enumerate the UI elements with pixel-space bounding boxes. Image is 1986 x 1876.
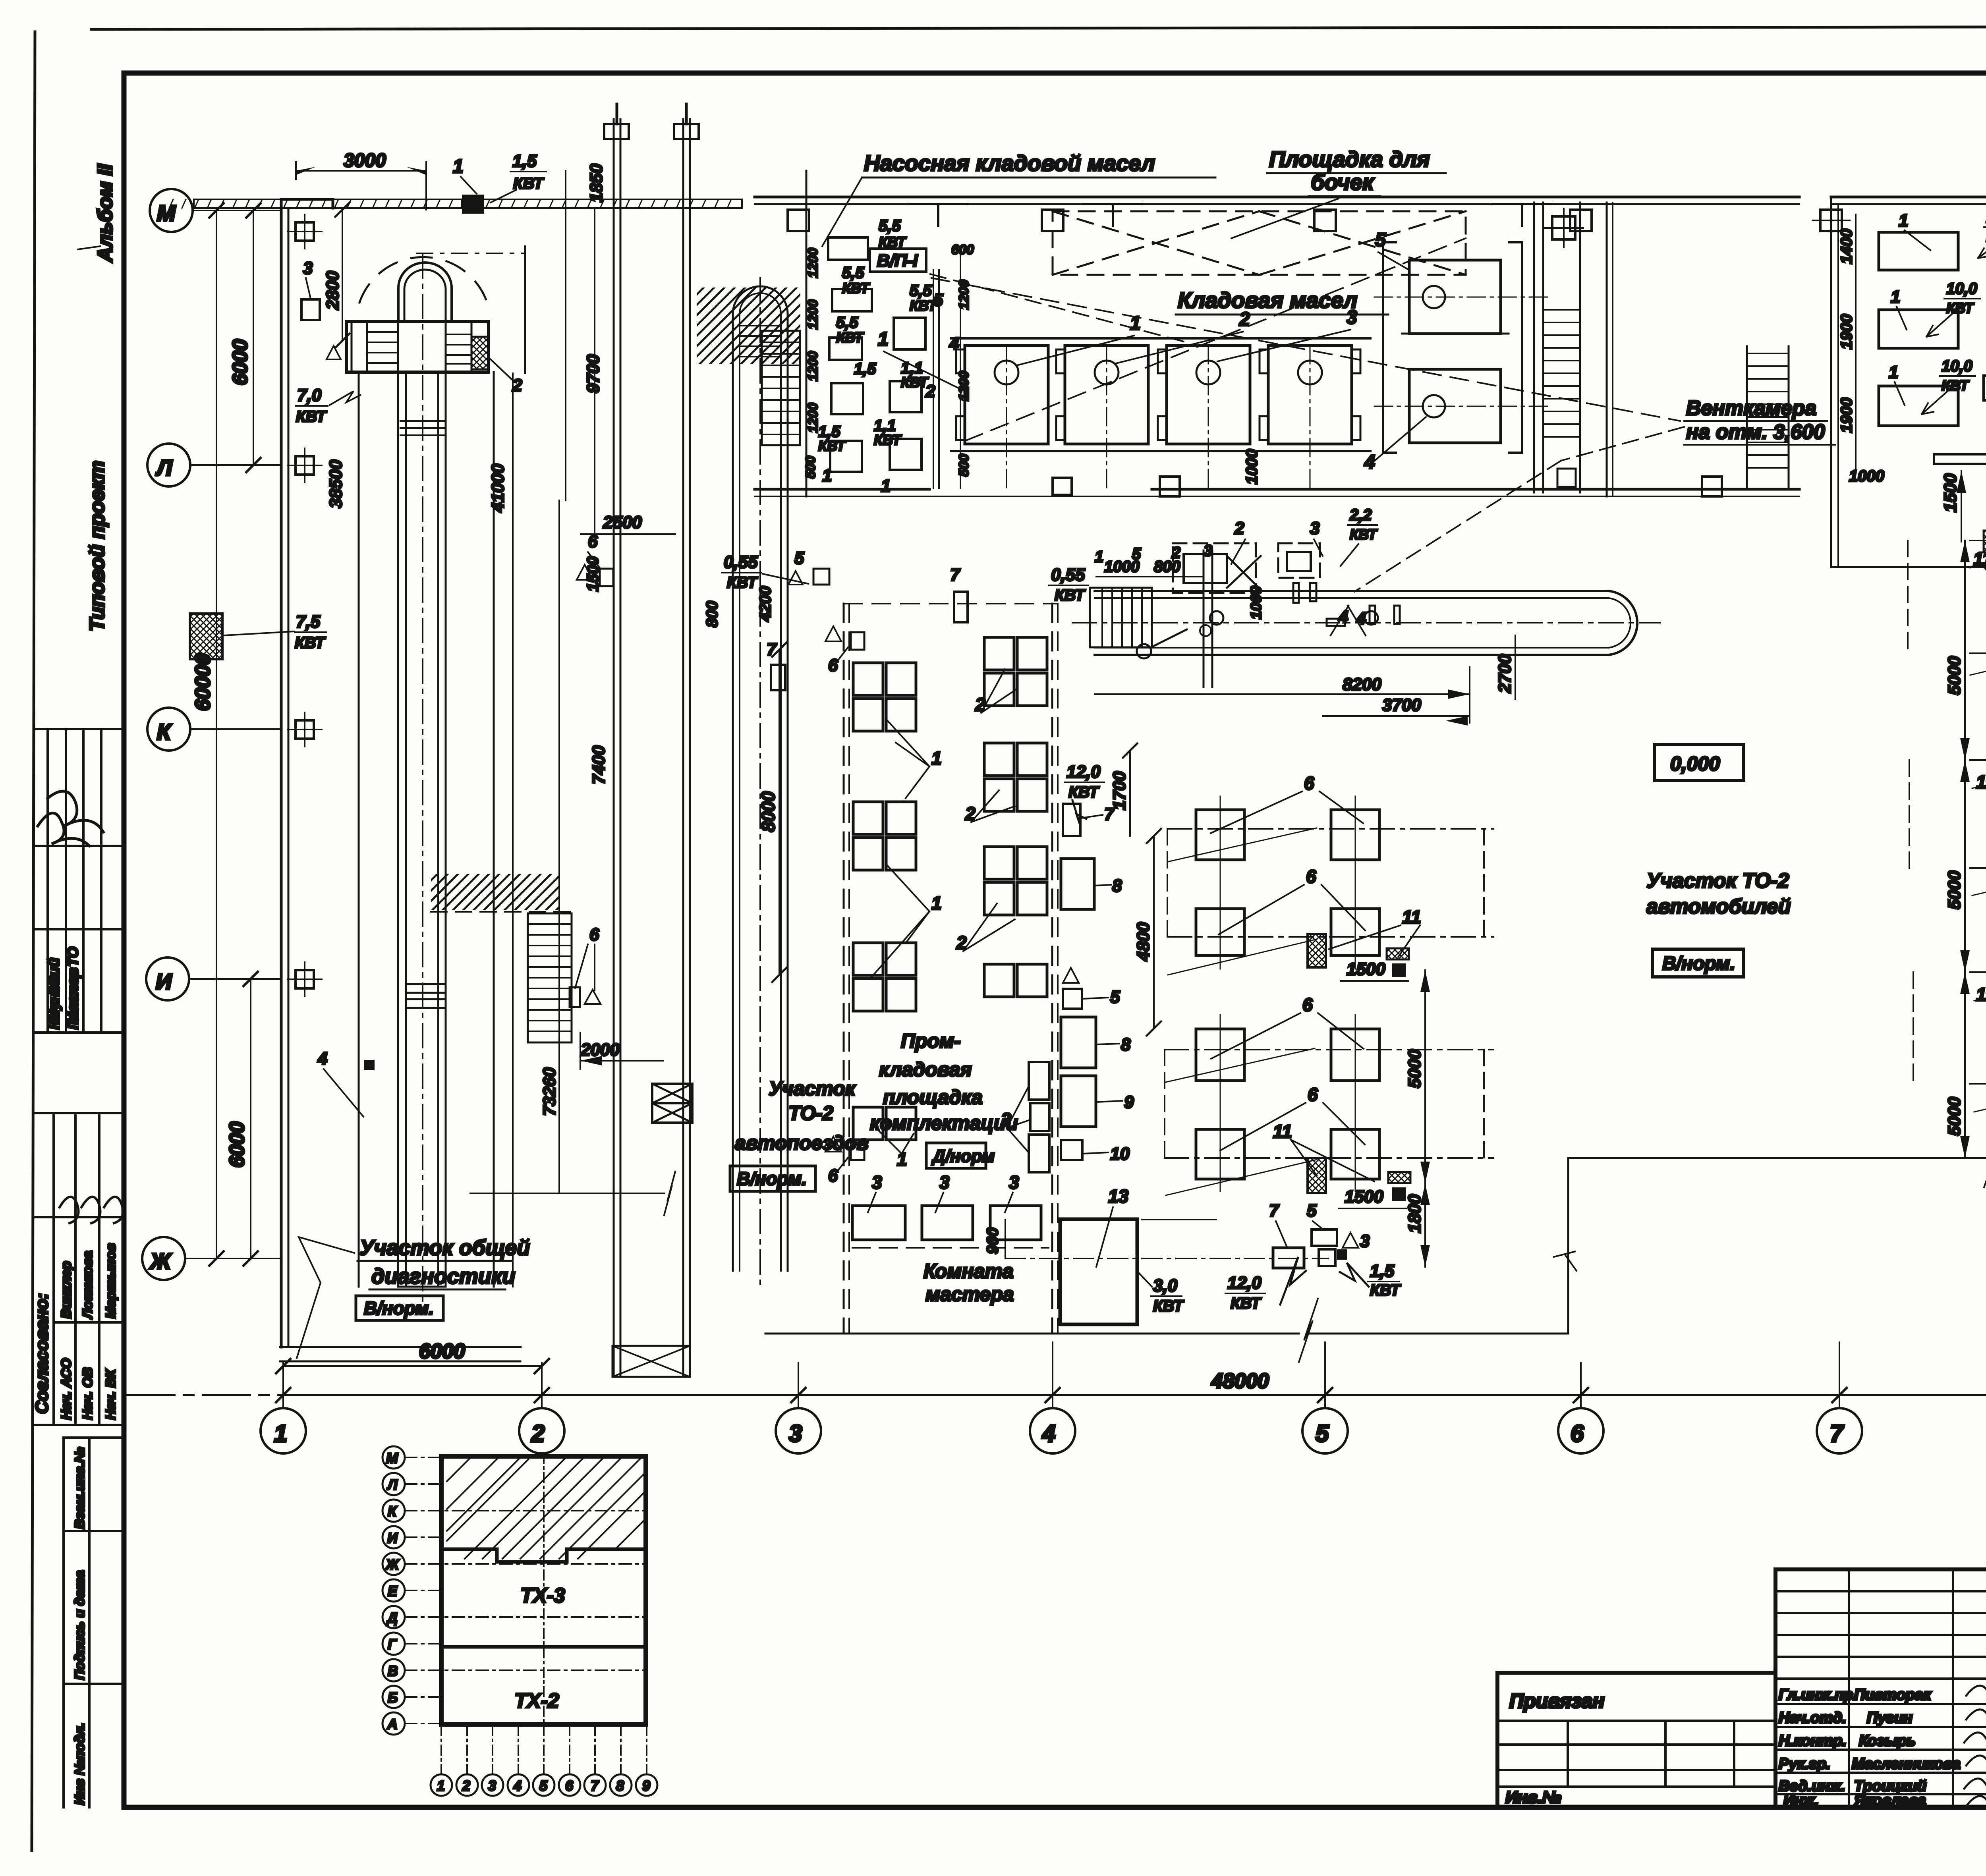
column squares on wall <box>296 222 314 241</box>
Д/норм box <box>926 1143 986 1168</box>
svg-text:Нач.отд.: Нач.отд. <box>1779 1710 1846 1726</box>
dashed group outlines <box>1908 540 1913 1084</box>
svg-text:К: К <box>388 1503 398 1519</box>
svg-text:автомобилей: автомобилей <box>1646 895 1791 918</box>
svg-text:ТХ-3: ТХ-3 <box>520 1584 565 1607</box>
svg-text:Типовой проект: Типовой проект <box>86 461 109 631</box>
svg-text:3: 3 <box>1360 1231 1370 1251</box>
svg-text:автопоездов: автопоездов <box>735 1132 869 1154</box>
svg-text:Пивторак: Пивторак <box>1854 1687 1932 1703</box>
oil storage tanks <box>878 288 1388 492</box>
cross hatch small rects <box>1308 934 1326 967</box>
svg-text:5: 5 <box>1316 1420 1329 1447</box>
41000 dim line <box>565 171 566 500</box>
svg-text:8: 8 <box>1112 876 1122 896</box>
svg-text:5,5: 5,5 <box>910 282 932 299</box>
svg-text:13: 13 <box>1108 1186 1129 1206</box>
svg-text:комплектации: комплектации <box>870 1112 1018 1134</box>
svg-text:Е: Е <box>388 1583 398 1599</box>
svg-text:Д/норм: Д/норм <box>931 1146 995 1166</box>
svg-text:КВТ: КВТ <box>842 280 870 296</box>
svg-text:2800: 2800 <box>323 271 342 310</box>
svg-text:Нач. АСО: Нач. АСО <box>59 1358 74 1420</box>
svg-text:10,0: 10,0 <box>1942 357 1972 375</box>
Согласовано block <box>32 1113 124 1425</box>
svg-text:1: 1 <box>878 329 889 350</box>
vertical dim 6000 И-Ж <box>250 979 251 1258</box>
svg-text:900: 900 <box>984 1228 1001 1254</box>
svg-text:М: М <box>157 201 176 226</box>
svg-text:5: 5 <box>1110 987 1120 1007</box>
small fittings on conveyor <box>1293 583 1299 603</box>
svg-text:3: 3 <box>939 1172 950 1193</box>
svg-text:И: И <box>387 1530 398 1546</box>
svg-text:3: 3 <box>872 1172 882 1193</box>
svg-text:КВТ: КВТ <box>296 408 327 425</box>
lift beam across pit <box>346 322 489 372</box>
svg-text:5: 5 <box>794 548 804 568</box>
wall left building double line <box>280 199 283 1347</box>
long diagonal leaders across <box>1166 828 1317 1195</box>
svg-text:2: 2 <box>462 1778 470 1794</box>
svg-text:В/норм.: В/норм. <box>1662 953 1735 974</box>
svg-text:10,0: 10,0 <box>1946 280 1977 297</box>
dim 9200 / 3700 / 2700 <box>1095 693 1470 695</box>
svg-text:Подпись и дата: Подпись и дата <box>72 1570 87 1680</box>
axis М <box>150 189 193 232</box>
svg-text:ТО-2: ТО-2 <box>788 1102 833 1124</box>
svg-text:600: 600 <box>951 242 974 257</box>
axis extension stubs <box>1839 1345 1840 1408</box>
svg-text:0,55: 0,55 <box>724 552 758 572</box>
lower sidebar cells <box>64 1438 124 1807</box>
svg-text:Согласовано:: Согласовано: <box>32 1293 52 1414</box>
svg-text:3: 3 <box>1310 519 1319 538</box>
svg-text:1: 1 <box>1889 363 1898 382</box>
svg-text:КВТ: КВТ <box>1068 784 1100 801</box>
svg-text:1000: 1000 <box>1248 586 1265 620</box>
compressor machines <box>1879 232 1958 270</box>
svg-text:КВТ: КВТ <box>874 432 902 448</box>
axis 7 <box>1817 1408 1862 1453</box>
svg-text:0,55: 0,55 <box>1051 565 1085 585</box>
svg-text:5,5: 5,5 <box>842 264 864 282</box>
svg-text:КВТ: КВТ <box>1350 526 1378 542</box>
svg-text:Участок: Участок <box>769 1077 856 1100</box>
second staircase right <box>1747 346 1789 489</box>
svg-text:6000: 6000 <box>419 1340 465 1363</box>
svg-text:7400: 7400 <box>589 745 609 784</box>
axis 5 <box>1302 1408 1348 1453</box>
svg-text:6: 6 <box>589 925 599 944</box>
ladder bars <box>400 421 445 435</box>
svg-text:4: 4 <box>949 334 959 353</box>
left wall of compressor room <box>1830 197 1832 567</box>
svg-text:Нач. ЗО: Нач. ЗО <box>46 975 62 1029</box>
tank 1 <box>956 345 1048 492</box>
svg-text:73260: 73260 <box>540 1067 559 1116</box>
svg-text:М: М <box>386 1450 398 1466</box>
svg-text:КВТ: КВТ <box>1055 587 1086 604</box>
svg-text:В/норм.: В/норм. <box>737 1168 807 1189</box>
bottom bench of battery room <box>1934 454 1986 464</box>
svg-text:7: 7 <box>950 565 961 585</box>
dim 6000 axes 1-2 <box>283 1365 542 1367</box>
svg-text:5000: 5000 <box>1945 1097 1964 1136</box>
svg-text:1200: 1200 <box>806 403 821 433</box>
pit 2 <box>733 278 788 1291</box>
svg-text:1,5: 1,5 <box>512 151 537 171</box>
svg-text:В/П-I: В/П-I <box>877 251 918 270</box>
svg-text:5: 5 <box>1132 545 1141 563</box>
pit walls below <box>358 372 360 1287</box>
column mid <box>1314 210 1336 231</box>
svg-text:1200: 1200 <box>806 351 821 381</box>
bottom three rects 3 <box>852 1206 905 1240</box>
long dashed leader lines across band <box>931 278 1680 421</box>
dim 8000 rotated <box>779 650 780 975</box>
svg-text:1,5: 1,5 <box>1370 1261 1395 1281</box>
axis 3 <box>776 1408 821 1453</box>
svg-text:Пугин: Пугин <box>1867 1710 1913 1726</box>
svg-text:на отм. 3,600: на отм. 3,600 <box>1686 421 1825 444</box>
vertical dims 1700 / 4800 <box>1129 751 1131 836</box>
svg-text:41000: 41000 <box>488 463 508 513</box>
staircase next to vent <box>1534 203 1583 492</box>
svg-text:11: 11 <box>1976 772 1986 792</box>
vertical dim 5000 / 1800 <box>1424 970 1426 1267</box>
vertical dim 5000 chain <box>1964 540 1966 1158</box>
svg-text:12,0: 12,0 <box>1227 1273 1262 1293</box>
svg-text:1: 1 <box>1095 548 1103 566</box>
svg-text:4: 4 <box>513 1778 522 1794</box>
svg-text:КВТ: КВТ <box>1942 377 1970 394</box>
right part boundary at y=2916 <box>1568 1157 1986 1159</box>
svg-text:Инв №подл.: Инв №подл. <box>72 1723 87 1805</box>
left stairs of conveyor <box>1090 588 1152 647</box>
unit 1 (1,5 kW) on fence <box>462 195 484 214</box>
building bottom walls <box>280 1346 520 1348</box>
axis И <box>146 957 189 1000</box>
svg-text:7: 7 <box>591 1778 599 1794</box>
svg-text:КВТ: КВТ <box>836 329 864 345</box>
svg-text:7,5: 7,5 <box>296 612 321 631</box>
tank 2 <box>1056 345 1148 492</box>
dim chain along wall <box>1855 214 1857 469</box>
svg-text:6: 6 <box>1302 994 1313 1015</box>
svg-text:4: 4 <box>1042 1420 1055 1447</box>
svg-text:1: 1 <box>274 1420 287 1447</box>
svg-text:1500: 1500 <box>1347 959 1385 979</box>
svg-text:2: 2 <box>925 382 935 401</box>
svg-text:1: 1 <box>437 1778 445 1794</box>
svg-text:3: 3 <box>789 1420 802 1447</box>
thin cross center lines through squares <box>1220 796 1355 1191</box>
svg-text:6: 6 <box>1571 1420 1584 1447</box>
dashed barrel platform with X <box>1053 211 1466 275</box>
svg-text:4: 4 <box>1338 607 1348 627</box>
extra walls <box>950 203 1613 622</box>
tank 3 <box>1158 345 1250 492</box>
svg-text:1500: 1500 <box>584 556 602 592</box>
svg-text:Участок общей: Участок общей <box>359 1236 530 1260</box>
svg-text:7: 7 <box>767 640 777 659</box>
svg-text:3: 3 <box>488 1778 496 1794</box>
svg-text:38500: 38500 <box>326 459 346 508</box>
svg-text:КВТ: КВТ <box>1231 1295 1262 1312</box>
7,5 kW crosshatch unit <box>190 614 222 659</box>
svg-text:Насосная кладовой масел: Насосная кладовой масел <box>864 151 1155 176</box>
svg-text:В: В <box>388 1663 398 1679</box>
svg-text:7,0: 7,0 <box>297 386 322 405</box>
axis 4 <box>1030 1408 1075 1453</box>
signatures column squiggles <box>1964 1686 1986 1809</box>
Привязан box <box>1497 1673 1775 1807</box>
axis К <box>147 708 190 751</box>
svg-text:500: 500 <box>956 454 972 477</box>
top horizontal dash to dim line <box>417 253 525 254</box>
svg-text:И: И <box>156 969 172 994</box>
svg-text:3000: 3000 <box>344 150 386 171</box>
svg-text:3: 3 <box>1009 1172 1019 1193</box>
svg-text:9700: 9700 <box>583 354 603 393</box>
top hatched band (fence) <box>169 199 742 208</box>
svg-text:Инж.: Инж. <box>1783 1792 1819 1809</box>
svg-text:3: 3 <box>303 259 313 278</box>
svg-text:Привязан: Привязан <box>1509 1690 1605 1712</box>
dim 3000 top <box>296 170 426 172</box>
hatched ramp band mid <box>431 874 560 910</box>
svg-text:5: 5 <box>1307 1201 1317 1220</box>
vertical dim 60000 М-Ж <box>216 210 217 1258</box>
bottom small units near axis 5 <box>1005 1258 1328 1259</box>
axis 6 <box>1558 1408 1603 1453</box>
svg-text:3: 3 <box>1204 542 1212 560</box>
svg-text:Мартынов: Мартынов <box>103 1243 118 1318</box>
svg-text:1: 1 <box>931 893 942 913</box>
svg-text:7: 7 <box>1830 1420 1844 1447</box>
ladder mid <box>528 913 601 1042</box>
squares 2 cols x 4 rows <box>1196 810 1379 1179</box>
outer page border top <box>91 26 1986 29</box>
svg-text:5000: 5000 <box>1945 870 1964 909</box>
solid arch double <box>398 262 452 322</box>
tank 4 <box>1260 345 1360 492</box>
svg-text:1000: 1000 <box>1849 467 1884 485</box>
svg-text:12,0: 12,0 <box>1066 762 1101 782</box>
svg-text:2: 2 <box>512 376 522 395</box>
svg-text:9: 9 <box>642 1778 650 1794</box>
svg-text:6: 6 <box>1304 773 1314 793</box>
svg-text:КВТ: КВТ <box>1153 1297 1184 1315</box>
svg-text:1700: 1700 <box>1110 771 1129 810</box>
svg-text:1000: 1000 <box>1243 449 1261 484</box>
dim 1500 below compressor <box>1831 566 1986 568</box>
stamp table 1 (наименования) <box>35 729 124 1113</box>
svg-text:Л: Л <box>155 455 173 480</box>
svg-text:Яковлева: Яковлева <box>1854 1792 1926 1809</box>
svg-text:48000: 48000 <box>1211 1370 1269 1393</box>
number circles row <box>431 1774 657 1796</box>
svg-text:Л: Л <box>386 1476 398 1493</box>
svg-text:10: 10 <box>1110 1144 1130 1164</box>
svg-text:Участок ТО-2: Участок ТО-2 <box>1646 869 1789 892</box>
svg-text:Инв.№: Инв.№ <box>1505 1788 1561 1807</box>
svg-text:8: 8 <box>616 1778 624 1794</box>
vertical dim 6000 М-Л <box>253 210 254 465</box>
svg-text:800: 800 <box>703 601 721 627</box>
svg-text:1900: 1900 <box>1838 314 1855 349</box>
hatched strip top (ramp) <box>697 288 800 364</box>
svg-text:Масленникова: Масленникова <box>1852 1756 1961 1772</box>
svg-text:8: 8 <box>1121 1035 1131 1054</box>
svg-text:11: 11 <box>1402 907 1421 927</box>
svg-text:0,000: 0,000 <box>1670 753 1720 775</box>
axis Ж <box>142 1237 185 1280</box>
svg-text:1500: 1500 <box>1345 1187 1383 1206</box>
svg-text:Площадка для: Площадка для <box>1269 147 1430 172</box>
top wall with columns <box>755 196 1799 199</box>
svg-text:9: 9 <box>1124 1092 1134 1112</box>
svg-text:1200: 1200 <box>806 248 821 278</box>
svg-text:Д: Д <box>386 1610 398 1626</box>
svg-text:8000: 8000 <box>758 791 779 832</box>
svg-text:5000: 5000 <box>1945 656 1964 695</box>
svg-text:КВТ: КВТ <box>727 574 758 591</box>
crosshatch + flags <box>1984 531 1986 552</box>
svg-text:2: 2 <box>1171 544 1180 562</box>
dash-dot axis rows <box>1168 828 1493 830</box>
svg-text:1900: 1900 <box>1838 398 1855 433</box>
rack group A1 (2x2) <box>853 663 916 1140</box>
svg-text:Козырь: Козырь <box>1859 1733 1916 1749</box>
svg-text:3700: 3700 <box>1382 695 1421 715</box>
hatched upper part <box>441 1456 646 1562</box>
svg-text:Нач. ВК: Нач. ВК <box>103 1369 118 1420</box>
svg-text:диагностики: диагностики <box>371 1264 515 1288</box>
svg-text:Г: Г <box>388 1636 397 1652</box>
svg-text:КВТ: КВТ <box>513 175 545 192</box>
svg-text:кладовая: кладовая <box>879 1058 972 1081</box>
svg-text:1850: 1850 <box>587 164 606 203</box>
dashed boundary <box>843 604 845 1334</box>
svg-text:4: 4 <box>317 1049 327 1068</box>
long diagonal leaders <box>1970 530 1986 1112</box>
platform lift above conveyor <box>1173 543 1256 593</box>
svg-text:КВТ: КВТ <box>1946 300 1974 316</box>
svg-text:11: 11 <box>1273 1121 1292 1142</box>
bottom wall of band <box>755 488 929 491</box>
T stub columns hanging <box>910 204 967 226</box>
svg-text:Альбом II: Альбом II <box>94 164 117 263</box>
misc labels near top of rack area <box>825 626 841 641</box>
svg-text:2,2: 2,2 <box>1349 506 1372 524</box>
svg-text:5: 5 <box>1375 230 1386 251</box>
axis 2 <box>519 1408 564 1453</box>
svg-text:1: 1 <box>1891 287 1900 307</box>
svg-text:1: 1 <box>1899 211 1908 230</box>
svg-text:4200: 4200 <box>757 586 774 622</box>
wall x=2030 <box>806 171 808 496</box>
svg-text:Рук.гр.: Рук.гр. <box>1779 1756 1830 1772</box>
svg-text:1: 1 <box>453 156 464 177</box>
column at top of wall <box>1820 210 1842 231</box>
svg-text:1: 1 <box>881 476 891 496</box>
svg-text:Кладовая масел: Кладовая масел <box>1178 288 1357 313</box>
svg-text:Нач. ОВ: Нач. ОВ <box>80 1367 95 1420</box>
svg-text:Пром-: Пром- <box>901 1030 961 1052</box>
svg-text:Гл.инж.пр.: Гл.инж.пр. <box>1779 1687 1857 1703</box>
svg-text:5,5: 5,5 <box>836 314 858 331</box>
dashed outer arc <box>359 257 487 303</box>
svg-text:2: 2 <box>1234 519 1244 538</box>
svg-text:3,0: 3,0 <box>1153 1276 1178 1295</box>
svg-text:КВТ: КВТ <box>901 374 929 390</box>
svg-text:площадка: площадка <box>883 1086 983 1108</box>
svg-text:500: 500 <box>803 456 818 479</box>
svg-text:А: А <box>387 1716 398 1732</box>
staircase left of pump room <box>762 331 800 445</box>
svg-text:5: 5 <box>539 1778 548 1794</box>
svg-text:КВТ: КВТ <box>1370 1282 1401 1299</box>
top wall <box>1831 196 1986 199</box>
svg-text:Ж: Ж <box>149 1249 172 1274</box>
svg-text:6: 6 <box>1306 866 1316 887</box>
dim 2800 arch <box>342 210 343 341</box>
column at axis 6 <box>1570 210 1592 231</box>
svg-text:Б: Б <box>388 1689 398 1706</box>
svg-text:Н.контр.: Н.контр. <box>1779 1733 1847 1749</box>
rack group B (right col) <box>984 637 1047 997</box>
svg-text:Гл.спец. ТО: Гл.спец. ТО <box>65 947 81 1029</box>
svg-text:1,5: 1,5 <box>854 360 876 378</box>
svg-text:2700: 2700 <box>1495 654 1515 693</box>
axis 1 <box>261 1408 306 1453</box>
vent units <box>1364 230 1549 473</box>
svg-text:1400: 1400 <box>1838 229 1855 264</box>
triangle marker <box>326 346 341 359</box>
svg-text:В/норм.: В/норм. <box>364 1298 434 1318</box>
svg-text:Ж: Ж <box>385 1556 400 1573</box>
svg-text:ТХ-2: ТХ-2 <box>514 1689 559 1712</box>
column at axis 4 <box>1042 210 1063 231</box>
svg-text:6: 6 <box>1308 1084 1318 1105</box>
svg-text:К: К <box>157 719 172 744</box>
letter circles column <box>383 1446 405 1735</box>
svg-text:Комната: Комната <box>923 1260 1014 1282</box>
pump cluster <box>803 217 1184 496</box>
svg-text:2500: 2500 <box>603 513 642 532</box>
svg-text:Лошакова: Лошакова <box>80 1251 95 1320</box>
wall top cap <box>281 199 333 208</box>
singles right col lower <box>1029 1062 1049 1172</box>
svg-text:6000: 6000 <box>226 1121 249 1168</box>
jog up at x=3948 <box>1567 1158 1569 1334</box>
svg-text:5000: 5000 <box>1405 1049 1424 1088</box>
svg-text:1: 1 <box>931 748 942 768</box>
svg-text:4800: 4800 <box>1134 922 1153 961</box>
svg-text:КВТ: КВТ <box>295 634 326 652</box>
svg-text:5,5: 5,5 <box>879 217 901 235</box>
dashed group outlines <box>1165 829 1484 1158</box>
X-boxes on right rails <box>652 1084 692 1103</box>
svg-text:5: 5 <box>933 290 943 310</box>
svg-text:60000: 60000 <box>191 653 214 711</box>
svg-text:мастера: мастера <box>925 1283 1014 1305</box>
pit 1 <box>346 171 566 1310</box>
svg-text:1800: 1800 <box>1405 1194 1424 1233</box>
axis Л <box>147 444 190 486</box>
